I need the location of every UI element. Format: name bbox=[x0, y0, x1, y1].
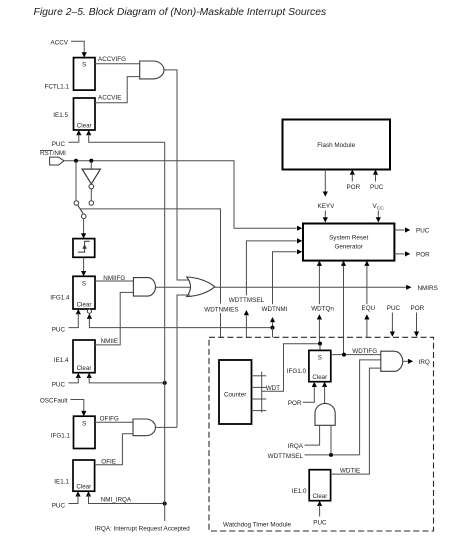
arrow POR into Flash bbox=[350, 170, 355, 175]
arrow PUC into IE1.1 clear bbox=[75, 491, 80, 496]
svg-text:PUC: PUC bbox=[370, 184, 384, 191]
wire AND U7 output to clear bbox=[324, 386, 326, 403]
svg-text:IE1.5: IE1.5 bbox=[53, 112, 68, 119]
svg-text:S: S bbox=[318, 354, 322, 361]
wire WDTNMIES below label bbox=[220, 313, 222, 337]
wire U6 output to OR U5 bbox=[156, 426, 178, 428]
wire WDTIE to AND U8 bbox=[331, 368, 381, 474]
svg-text:IE1.1: IE1.1 bbox=[54, 478, 69, 485]
arrow PUC into watchdog bbox=[390, 332, 395, 337]
wire POR elbow bbox=[303, 386, 314, 402]
svg-text:IRQA: Interrupt Request Accept: IRQA: Interrupt Request Accepted bbox=[95, 526, 191, 533]
wire counter tap bus bbox=[261, 372, 263, 413]
arrow into SRG input 3 bbox=[297, 249, 302, 254]
arrow into SRG input 1 bbox=[297, 226, 302, 231]
svg-text:ACCVIFG: ACCVIFG bbox=[98, 56, 126, 63]
arrow PUC into IE1.0 clear bbox=[317, 501, 322, 506]
wire PUC elbow to IFG1.4 bbox=[69, 313, 79, 328]
svg-text:POR: POR bbox=[288, 400, 302, 407]
svg-text:IRQA: IRQA bbox=[288, 443, 304, 450]
wire NMI_IRQA stub below junction bbox=[164, 504, 166, 522]
svg-text:OSCFault: OSCFault bbox=[40, 398, 68, 405]
wire PUC output of SRG bbox=[394, 229, 404, 231]
wire to direct switch contact bbox=[75, 161, 77, 201]
svg-text:IFG1.0: IFG1.0 bbox=[287, 368, 307, 375]
wire WDTTMSEL lower run bbox=[305, 454, 360, 456]
wire OSCFault to IFG1.1 S bbox=[71, 400, 84, 412]
arrow WDTQn up bbox=[317, 314, 322, 319]
svg-text:OFIE: OFIE bbox=[101, 458, 116, 465]
wire to inverter bbox=[90, 161, 92, 169]
wire VCC to SRG bbox=[377, 211, 379, 218]
svg-text:OFIFG: OFIFG bbox=[100, 415, 119, 422]
latch IE1.1 (OFIE) bbox=[73, 460, 95, 491]
junction WDT / WDTQn bbox=[318, 342, 322, 346]
svg-text:WDTNMIES: WDTNMIES bbox=[204, 307, 238, 314]
wire Schmitt to IFG1.4 bbox=[83, 257, 85, 271]
arrow EQU into SRG bottom bbox=[364, 261, 369, 266]
svg-text:KEYV: KEYV bbox=[318, 203, 336, 210]
svg-text:IE1.0: IE1.0 bbox=[292, 488, 307, 495]
wire NMIRS output bbox=[215, 286, 406, 288]
svg-text:S: S bbox=[82, 62, 86, 69]
wire IRQA to AND U7 bbox=[305, 425, 320, 445]
wire WDTIFG output bbox=[331, 354, 381, 356]
arrow PUC output bbox=[405, 227, 410, 232]
svg-text:Clear: Clear bbox=[313, 493, 328, 500]
AND gate U1 (ACCV) bbox=[140, 61, 164, 79]
switch contact direct bbox=[74, 201, 79, 206]
block Counter bbox=[219, 360, 252, 424]
svg-text:IE1.4: IE1.4 bbox=[54, 357, 69, 364]
svg-text:POR: POR bbox=[411, 305, 425, 312]
wire POR output of SRG bbox=[394, 253, 404, 255]
arrow PUC into Flash bbox=[373, 170, 378, 175]
wire WDTTMSEL into AND U7 bbox=[330, 425, 332, 455]
wire WDTTMSEL below arrow bbox=[245, 316, 247, 338]
wire POR into watchdog bbox=[416, 313, 418, 332]
latch IE1.4 (NMIIE) bbox=[73, 340, 95, 373]
svg-text:WDTIFG: WDTIFG bbox=[352, 348, 377, 355]
wire switch pole to Schmitt U3 bbox=[83, 219, 85, 234]
arrow WDTQn into SRG bottom bbox=[317, 261, 322, 266]
arrow POR into IFG1.0 clear bbox=[312, 382, 317, 387]
arrow WDTTMSEL up bbox=[244, 310, 249, 315]
svg-text:Counter: Counter bbox=[224, 391, 246, 398]
arrow NMIRS bbox=[406, 285, 411, 290]
wire OFIE to AND U6 bbox=[95, 434, 133, 465]
svg-text:NMIRS: NMIRS bbox=[418, 285, 438, 292]
pin RST/NMI pad bbox=[50, 157, 64, 165]
latch IE1.0 (WDTIE) bbox=[309, 470, 330, 501]
AND gate U8 (IRQ) bbox=[381, 351, 403, 371]
arrow EQU up bbox=[364, 314, 369, 319]
svg-text:WDTTMSEL: WDTTMSEL bbox=[268, 453, 304, 460]
arrow NMI_IRQA into IE1.4 clear bbox=[87, 373, 92, 378]
svg-text:POR: POR bbox=[416, 252, 430, 259]
wire counter tap 1 bbox=[252, 375, 267, 377]
wire NMI_IRQA bus to IE1.5 clear bbox=[89, 134, 165, 142]
wire NMIIFG to AND U4n bbox=[95, 280, 133, 282]
arrow PUC into IE1.4 clear bbox=[76, 373, 81, 378]
svg-text:WDTQn: WDTQn bbox=[311, 306, 334, 313]
block System Reset Generator bbox=[303, 224, 394, 261]
arrow into SRG input 2 bbox=[297, 238, 302, 243]
arrow PUC into IFG1.4 clear bbox=[76, 309, 81, 314]
wire PUC elbow to IE1.1 bbox=[69, 495, 79, 504]
svg-text:PUC: PUC bbox=[52, 141, 66, 148]
junction WDTIFG bbox=[342, 353, 346, 357]
switch contact inverted bbox=[89, 201, 94, 206]
wire IRQ output bbox=[403, 360, 408, 362]
arrow POR into watchdog bbox=[414, 332, 419, 337]
junction on RST/NMI at inverter branch bbox=[89, 159, 93, 163]
wire WDTTMSEL to AND U8 bbox=[360, 360, 381, 455]
wire PUC stub (IE1.0) bbox=[319, 505, 321, 516]
wire U4n output to OR U5 bbox=[156, 286, 191, 288]
AND gate U4n (NMI) bbox=[133, 278, 155, 297]
svg-text:PUC: PUC bbox=[387, 305, 401, 312]
svg-text:Watchdog Timer Module: Watchdog Timer Module bbox=[223, 522, 292, 529]
junction on RST/NMI at switch branch bbox=[74, 159, 78, 163]
latch IFG1.0 (WDTIFG) bbox=[309, 350, 331, 381]
wire WDTQn upper bbox=[318, 266, 320, 304]
wire counter tap 2 bbox=[252, 386, 267, 388]
AND gate U7 (clear, vertical) bbox=[315, 403, 335, 425]
arrow into IFG1.4 S bbox=[81, 271, 86, 276]
arrow into Schmitt U3 bbox=[81, 233, 86, 238]
svg-text:RST/NMI: RST/NMI bbox=[40, 150, 66, 157]
junction NMI_IRQA bbox=[163, 502, 167, 506]
svg-text:NMIIE: NMIIE bbox=[101, 338, 119, 345]
svg-text:Figure 2–5. Block Diagram of (: Figure 2–5. Block Diagram of (Non)-Maska… bbox=[34, 7, 327, 18]
OR gate U5 (NMIRS) bbox=[187, 277, 215, 297]
arrow NMI_IRQA into IE1.5 clear bbox=[86, 130, 91, 135]
svg-text:PUC: PUC bbox=[52, 502, 66, 509]
bubble on IFG1.4 clear bbox=[87, 309, 91, 313]
latch IFG1.1 (OFIFG) bbox=[74, 416, 96, 448]
wire KEYV to SRG bbox=[324, 211, 326, 218]
wire NMI_IRQA bus to IE1.4 clear bbox=[89, 377, 165, 383]
svg-text:Clear: Clear bbox=[312, 374, 327, 381]
svg-text:FCTL1.1: FCTL1.1 bbox=[45, 83, 70, 90]
wire RST/NMI to SRG bbox=[64, 161, 297, 228]
wire EQU lower bbox=[366, 320, 368, 338]
arrow into FCTL1.1 S bbox=[82, 52, 87, 57]
svg-text:IRQ: IRQ bbox=[419, 359, 430, 366]
wire WDTNMI bus to IFG1.4 clear bbox=[89, 318, 272, 328]
junction NMI_IRQA / IE1.4 clear bbox=[163, 381, 167, 385]
wire U1 output down to OR U5 bbox=[164, 70, 190, 280]
wire inverter to switch contact bbox=[90, 189, 92, 200]
svg-text:PUC: PUC bbox=[416, 228, 430, 235]
latch IFG1.4 (NMIIFG) bbox=[73, 276, 95, 309]
Schmitt hysteresis symbol bbox=[78, 241, 90, 252]
svg-text:POR: POR bbox=[347, 184, 361, 191]
wire KEYV from Flash bbox=[324, 170, 326, 193]
wire ACCV to FCTL1.1 S input bbox=[71, 41, 84, 52]
arrow WDTIFG into SRG bottom bbox=[341, 261, 346, 266]
svg-text:IFG1.1: IFG1.1 bbox=[51, 432, 71, 439]
inverter U2 bbox=[82, 169, 100, 184]
wire OR U5 bottom input bbox=[177, 295, 190, 427]
arrow KEYV into SRG bbox=[323, 217, 328, 222]
wire WDT to IFG1.0 S bbox=[262, 344, 320, 392]
svg-text:WDTIE: WDTIE bbox=[340, 467, 360, 474]
arrow IRQ bbox=[408, 359, 413, 364]
arrow WDTNMI into IFG1.4 clear bubble bbox=[87, 314, 92, 319]
arrow KEYV upper bbox=[323, 192, 328, 197]
wire counter tap 3 bbox=[252, 398, 267, 400]
wire WDTNMIES to switch lever bbox=[80, 209, 220, 304]
svg-text:WDTTMSEL: WDTTMSEL bbox=[229, 297, 265, 304]
svg-text:Generator: Generator bbox=[335, 243, 363, 250]
svg-text:EQU: EQU bbox=[362, 305, 376, 312]
svg-text:PUC: PUC bbox=[52, 381, 66, 388]
wire WDTTMSEL to SRG input 2 bbox=[246, 241, 296, 295]
wire WDTQn to junction bbox=[318, 320, 320, 344]
wire OFIFG to AND U6 bbox=[95, 421, 133, 423]
junction WDTNMI / IFG1.4 clear line bbox=[271, 326, 275, 330]
switch pole bbox=[81, 214, 86, 219]
wire ACCVIFG to AND U1 bbox=[95, 63, 140, 65]
block Flash Module bbox=[283, 120, 391, 170]
wire PUC elbow to IE1.4 bbox=[69, 377, 79, 383]
wire WDTNMI to module edge bbox=[272, 328, 274, 338]
wire NMI_IRQA vertical bus bbox=[164, 142, 166, 503]
svg-text:Flash Module: Flash Module bbox=[317, 142, 355, 149]
svg-text:WDTNMI: WDTNMI bbox=[262, 306, 288, 313]
svg-text:PUC: PUC bbox=[313, 519, 327, 526]
switch lever bbox=[78, 205, 84, 214]
svg-text:NMI_IRQA: NMI_IRQA bbox=[101, 496, 132, 503]
junction WDTTMSEL bbox=[329, 453, 333, 457]
wire WDTNMI to SRG input 3 bbox=[273, 252, 297, 304]
AND gate U6 (OF) bbox=[133, 419, 156, 436]
wire PUC stub (Flash) bbox=[375, 174, 377, 182]
svg-text:Clear: Clear bbox=[77, 365, 92, 372]
arrow VCC into SRG bbox=[376, 217, 381, 222]
svg-text:Clear: Clear bbox=[77, 122, 92, 129]
svg-text:Clear: Clear bbox=[76, 484, 91, 491]
wire NMIIE to AND U4n bbox=[95, 292, 133, 345]
wire WDTNMI below arrow bbox=[272, 323, 274, 328]
svg-text:IFG1.4: IFG1.4 bbox=[50, 294, 70, 301]
svg-text:S: S bbox=[82, 420, 86, 427]
svg-text:Clear: Clear bbox=[77, 301, 92, 308]
svg-text:ACCVIE: ACCVIE bbox=[98, 95, 121, 102]
wire EQU upper bbox=[366, 266, 368, 304]
latch FCTL1.1 (ACCVIFG) bbox=[74, 58, 96, 91]
wire NMI_IRQA to IE1.1 clear bbox=[89, 495, 165, 504]
arrow PUC into IE1.5 clear bbox=[76, 130, 81, 135]
arrow WDTNMI up bbox=[270, 317, 275, 322]
svg-text:S: S bbox=[82, 280, 86, 287]
module boundary Watchdog Timer bbox=[209, 337, 434, 531]
wire POR stub (Flash) bbox=[351, 174, 353, 182]
wire counter tap 4 bbox=[252, 410, 267, 412]
arrow clear AND into IFG1.0 bbox=[322, 382, 327, 387]
arrow into IFG1.1 S bbox=[81, 411, 86, 416]
wire PUC elbow to IE1.5 bbox=[69, 134, 79, 142]
latch IE1.5 (ACCVIE) bbox=[74, 98, 96, 130]
inverter U2 bubble bbox=[89, 184, 94, 189]
wire PUC into watchdog bbox=[391, 313, 393, 332]
wire junction into IFG1.0 S bbox=[319, 344, 321, 351]
wire ACCVIE to AND U1 bbox=[95, 77, 140, 103]
wire WDTIFG riser to SRG bbox=[343, 266, 345, 355]
arrow NMI_IRQA into IE1.1 clear bbox=[86, 491, 91, 496]
svg-text:System Reset: System Reset bbox=[329, 235, 368, 242]
svg-text:ACCV: ACCV bbox=[51, 39, 69, 46]
svg-text:PUC: PUC bbox=[52, 327, 66, 334]
arrow POR output bbox=[405, 251, 410, 256]
Schmitt trigger U3 bbox=[73, 239, 95, 258]
